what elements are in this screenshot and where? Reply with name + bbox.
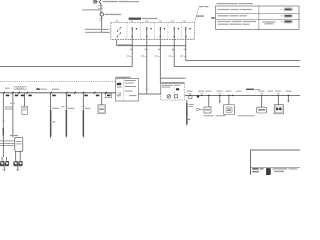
collector wire label: [118, 44, 132, 45]
table row lines: [216, 12, 300, 14]
relay box top text row: [161, 82, 184, 83]
top right table frame: [216, 6, 300, 30]
relay box K6300: [161, 83, 185, 100]
tick on wire x146.9: [145, 88, 148, 90]
bus2 right segment: [185, 94, 300, 96]
bus2 left segment: [0, 92, 116, 94]
labels below right components: [203, 115, 254, 116]
table entry mark left: [211, 17, 215, 19]
table row3 text two lines: [218, 21, 276, 25]
module box A7015: [116, 79, 139, 102]
wire drop x101.7 to box: [101, 93, 103, 105]
bus2 mid segment: [139, 93, 161, 95]
connector box X255 double border: [98, 105, 106, 114]
arrow end on stub x219.8: [219, 101, 221, 103]
arrow end on stub x288.3: [287, 101, 289, 103]
leader label text: [196, 6, 208, 17]
wire drop x24.6: [24, 93, 26, 106]
relay pin square: [175, 95, 178, 98]
black blob right: [197, 95, 199, 97]
labels above bus2 right: [187, 89, 292, 92]
wire into box pin B: [102, 31, 111, 33]
vertical wire text bar x3.3: [3, 128, 4, 136]
wires below tall box: [2, 151, 20, 160]
table row1 text: [218, 9, 253, 10]
relay box inner dashed separator: [173, 83, 175, 100]
wire down to relay box: [159, 46, 161, 83]
pill label above bus2 left: [14, 86, 27, 89]
table row2 connector icon: [280, 15, 292, 18]
table row3 connector icon: [280, 20, 292, 23]
table column line: [258, 6, 260, 30]
inline connector box on bus2: [105, 93, 111, 97]
component box B2 with inner square: [224, 105, 235, 115]
collector wire below fuse box: [117, 45, 186, 47]
wire drop x83.3 with label bar: [82, 93, 84, 110]
pin ticks and dots inside cells: [132, 27, 186, 31]
tall component box bottom left: [10, 135, 18, 136]
wire from battery down to splice circle: [100, 3, 102, 13]
ground connector pair 1: [0, 161, 9, 166]
pin numbers above box: [116, 21, 186, 22]
module box internal details: [117, 80, 137, 96]
dotted wire y82: [0, 80, 116, 82]
label right of x12 wire: [10, 103, 15, 104]
relay box inner text: [162, 85, 181, 88]
wire elbow right at y60: [186, 46, 300, 61]
wire label frame on x12: [5, 107, 12, 110]
wire to ground pair1: [2, 136, 4, 158]
module box A7015 title: [115, 77, 130, 78]
fuse box title (bold + normal): [129, 18, 158, 20]
labels above bus2 left: [5, 88, 59, 90]
splice node circle: [100, 13, 104, 17]
pin number near bar: [53, 119, 191, 123]
relay coil blob: [176, 88, 179, 90]
rounded component box B3: [257, 107, 267, 113]
fuse symbols in left cell: [117, 28, 120, 37]
wire labels into fuse box: [85, 29, 110, 33]
pin square with dot right of relay box: [189, 95, 192, 98]
wire from splice down: [101, 16, 103, 32]
label terminal 30 text: [103, 1, 140, 2]
module box internal separator: [122, 79, 124, 102]
drop wires bus2 right: [209, 95, 288, 107]
relay box left edge solid part: [160, 83, 162, 94]
small box B1: [204, 107, 211, 113]
wire W30 down-left to bus1: [0, 46, 132, 67]
stubs below ground pairs: [4, 166, 18, 171]
lower pin marks in fuse box cells: [131, 35, 186, 38]
wire drop x12: [12, 93, 14, 138]
slash in module box: [118, 93, 121, 96]
wire tick marks: [98, 5, 103, 7]
wire into box pin A: [102, 28, 111, 30]
top right table title: [216, 3, 253, 4]
title block inner line: [251, 166, 301, 168]
junction dots on bus2 right: [189, 95, 289, 97]
table row2 text: [218, 15, 248, 16]
leader line to label at top right of fuse box: [195, 8, 199, 22]
ticks on bus2 right: [189, 92, 280, 94]
wire down middle-left: [146, 46, 148, 94]
title block logo: [266, 168, 271, 175]
title block texts row1: [252, 168, 297, 170]
pin number ticks below collector: [130, 49, 186, 50]
wire elbow right at y66.7: [174, 46, 300, 67]
arrow flag component: [197, 108, 201, 111]
tick on x3.3: [2, 120, 5, 122]
relay pin symbol circle-x: [167, 95, 170, 98]
relay box K6300 titles: [161, 78, 186, 79]
component box B4 with two terminals: [274, 105, 283, 114]
bottom right title block: [251, 150, 302, 177]
title block texts row2: [252, 171, 284, 173]
connector ticks with labels on vertical wires: [130, 50, 186, 56]
pin wires into tall box: [0, 141, 15, 146]
splice slashes on bus2 left: [3, 92, 106, 94]
wire label line: [82, 9, 101, 10]
wires from fuse box pins down to collector: [117, 31, 186, 46]
fuse box internal dashed separators: [127, 22, 182, 39]
table row1 connector icon: [280, 8, 292, 11]
ground connector pair 2: [13, 161, 22, 166]
splice boxes below bus2 left: [6, 95, 111, 97]
wire drop x186.8 with text bar: [186, 100, 188, 103]
splice label text: [105, 14, 122, 15]
battery terminal symbol: [94, 0, 101, 4]
wire drop x3.3: [2, 93, 4, 128]
wire drop x66.3 with label bar: [65, 93, 67, 110]
connector box A258: [22, 106, 28, 114]
tick on wire: [99, 18, 103, 20]
wire drop x50.6 with label bar: [50, 93, 52, 110]
fuse box X11002 dashed outline: [111, 22, 195, 39]
